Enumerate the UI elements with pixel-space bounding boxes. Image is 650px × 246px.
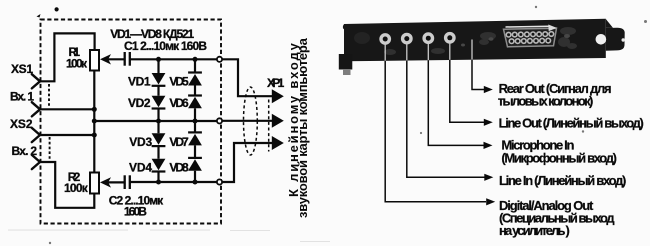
svg-text:VD8: VD8 bbox=[169, 161, 189, 175]
svg-text:Line In (Линейный вход): Line In (Линейный вход) bbox=[499, 173, 626, 188]
svg-text:XS1: XS1 bbox=[11, 62, 33, 76]
svg-text:100к: 100к bbox=[66, 57, 88, 71]
svg-text:Вх. 2: Вх. 2 bbox=[12, 144, 38, 158]
svg-text:XP1: XP1 bbox=[267, 76, 285, 90]
svg-text:VD3: VD3 bbox=[129, 135, 152, 149]
svg-text:XS2: XS2 bbox=[10, 117, 33, 131]
svg-text:на усилитель ): на усилитель ) bbox=[499, 223, 570, 238]
svg-text:VD5: VD5 bbox=[169, 74, 189, 88]
svg-text:Вх. 1: Вх. 1 bbox=[10, 89, 34, 103]
svg-text:VD2: VD2 bbox=[128, 96, 151, 110]
svg-text:VD4: VD4 bbox=[129, 161, 152, 175]
svg-text:100к: 100к bbox=[64, 181, 89, 195]
svg-text:тыловых колонок): тыловых колонок) bbox=[498, 94, 594, 109]
svg-text:С1 2...10мк 160В: С1 2...10мк 160В bbox=[124, 39, 207, 53]
svg-text:160В: 160В bbox=[124, 205, 147, 219]
svg-text:(Микрофонный вход): (Микрофонный вход) bbox=[501, 151, 617, 166]
svg-text:VD6: VD6 bbox=[169, 96, 189, 110]
svg-text:VD7: VD7 bbox=[169, 135, 189, 149]
svg-text:VD1: VD1 bbox=[128, 74, 151, 88]
svg-text:Line Out (Линейный выход): Line Out (Линейный выход) bbox=[499, 115, 644, 130]
